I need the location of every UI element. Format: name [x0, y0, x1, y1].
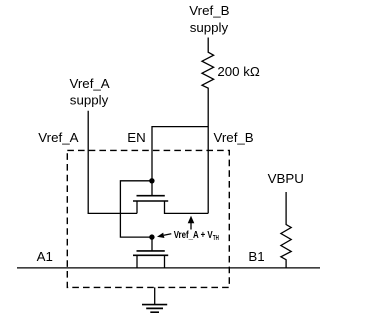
svg-text:VBPU: VBPU [268, 171, 304, 186]
svg-text:Vref_B: Vref_B [189, 3, 229, 18]
svg-text:Vref_B: Vref_B [214, 130, 254, 145]
svg-text:B1: B1 [248, 249, 264, 264]
svg-text:EN: EN [127, 130, 145, 145]
svg-text:200 kΩ: 200 kΩ [217, 64, 260, 79]
svg-text:A1: A1 [37, 249, 53, 264]
svg-text:supply: supply [190, 20, 229, 35]
svg-text:Vref_A: Vref_A [70, 76, 110, 91]
svg-text:supply: supply [70, 93, 109, 108]
svg-text:Vref_A + V: Vref_A + V [174, 230, 213, 241]
svg-text:Vref_A: Vref_A [38, 130, 78, 145]
svg-text:TH: TH [213, 233, 219, 242]
